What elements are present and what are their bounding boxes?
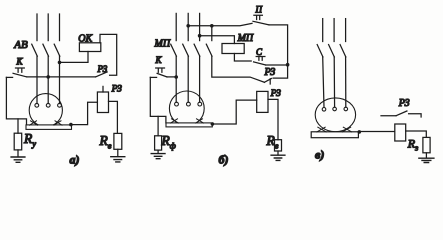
ground (below Rv fig a) <box>111 157 125 162</box>
wire phase L2 lower (fig b) <box>187 56 189 102</box>
wire phase L3 top (fig a) <box>59 14 61 41</box>
motor terminal 2 (fig b) <box>187 102 191 106</box>
contactor coil MP <box>222 44 244 54</box>
contactor MP aux pole blade <box>206 44 212 56</box>
svg-text:К: К <box>16 57 24 67</box>
resistor Rz <box>423 137 430 152</box>
motor terminal 2 (fig v) <box>333 107 337 111</box>
svg-text:РЗ: РЗ <box>264 67 276 78</box>
node at motor base right (fig v) <box>358 130 362 134</box>
svg-text:Rз: Rз <box>407 137 418 153</box>
svg-text:Rф: Rф <box>161 133 176 151</box>
wire contact C to right bus <box>266 64 288 66</box>
resistor Ru <box>14 133 22 150</box>
wire motor base to RZ coil (fig b) <box>212 100 256 124</box>
breaker AB pole 1 blade <box>32 44 38 56</box>
wire Rv to ground (fig b) <box>277 151 279 155</box>
wire phase L2 top (fig v) <box>333 19 335 42</box>
svg-text:П: П <box>255 5 263 15</box>
node on L3 to OK coil <box>58 61 62 65</box>
motor terminal 2 (fig a) <box>46 103 50 107</box>
breaker AB pole 3 blade <box>54 44 60 56</box>
wire phase L1 lower (fig a) <box>36 56 38 103</box>
svg-text:Rв: Rв <box>99 133 112 151</box>
node on L3 to MP coil <box>198 34 202 38</box>
wire phase L3 top (fig b) <box>199 13 201 40</box>
contact RZ (fig a) blade <box>96 72 108 77</box>
svg-text:РЗ: РЗ <box>398 98 410 109</box>
contactor MP pole 1 blade <box>171 44 177 56</box>
node on L2 at K wire <box>46 75 50 79</box>
relay coil OK <box>79 43 100 52</box>
motor base (fig b) <box>166 123 212 127</box>
motor mount braces right (fig a) <box>54 121 62 125</box>
wire aux pole lower segment <box>212 56 265 82</box>
contactor MP pole 3 blade <box>194 44 200 56</box>
wire RZ coil to resistor Rv (fig b) <box>268 99 278 139</box>
contactor MP pole 2 blade <box>183 44 189 56</box>
relay coil RZ (fig b) <box>257 91 268 112</box>
wire phase L1 lower (fig b) <box>175 56 177 102</box>
node on L2 to button P <box>186 24 190 28</box>
svg-text:К: К <box>155 55 163 65</box>
wire RZ coil to resistor Rz <box>406 131 427 137</box>
contact K arc-chute mark <box>16 68 25 72</box>
wire phase L3 lower (fig a) <box>59 56 61 103</box>
wire motor base to RZ coil (fig v) <box>359 131 395 133</box>
motor mount braces left (fig a) <box>30 121 38 125</box>
contact K arc-chute mark (fig b) <box>156 68 165 72</box>
relay coil RZ (fig a) <box>97 92 108 113</box>
wire branch to resistor Rf <box>157 116 159 135</box>
RZ contact fixed terminal tick (fig b) <box>269 79 271 84</box>
wire phase L2 top (fig a) <box>47 14 49 41</box>
node C wire on right bus <box>286 63 290 67</box>
switch pole 1 blade (fig v) <box>317 45 323 57</box>
wire MP coil bottom to contact C <box>234 54 251 62</box>
button P blade <box>253 21 269 25</box>
node aux tap on P wire <box>210 24 214 28</box>
wire contact K to contact RZ <box>27 76 96 78</box>
motor mount braces right (fig b) <box>196 119 204 123</box>
wire phase L2 top (fig b) <box>187 13 189 40</box>
wire left bracket (fig a) <box>6 77 26 125</box>
svg-text:МП: МП <box>237 33 254 44</box>
motor terminal 3 (fig a) <box>58 103 62 107</box>
wire phase L2 lower (fig a) <box>47 56 49 103</box>
svg-text:а): а) <box>70 153 80 167</box>
node at motor base right (fig b) <box>211 122 215 126</box>
ground (below Rv fig b) <box>271 155 285 160</box>
ground (below Ru) <box>11 157 25 162</box>
contact K blade (fig b) <box>157 73 167 77</box>
resistor Rv (fig a) <box>114 133 122 149</box>
motor mount braces left (fig b) <box>171 119 179 123</box>
svg-text:б): б) <box>219 153 229 167</box>
svg-text:в): в) <box>315 148 324 162</box>
wire phase L3 lower (fig b) <box>199 56 201 102</box>
button P actuator mark <box>254 15 263 19</box>
svg-text:РЗ: РЗ <box>97 64 108 74</box>
wire phase L1 top (fig b) <box>175 13 177 40</box>
motor mount braces left (fig v) <box>317 127 326 132</box>
wire RZ coil to resistor Rv (fig a) <box>109 101 118 133</box>
wire Ru to ground <box>17 150 19 157</box>
wire Rz to ground <box>425 153 427 158</box>
motor terminal 1 (fig a) <box>35 103 39 107</box>
contact C blade <box>254 62 266 65</box>
wire aux pole top segment <box>211 26 213 41</box>
breaker AB pole 2 blade <box>43 44 49 56</box>
relay coil RZ (fig v) <box>395 124 406 141</box>
svg-text:С: С <box>256 47 263 57</box>
wire phase L3 lower (fig v) <box>345 57 347 107</box>
wire Rv to ground (fig a) <box>117 149 119 156</box>
motor base (fig a) <box>26 125 72 129</box>
contact RZ (fig v) blade <box>396 111 407 116</box>
svg-text:РЗ: РЗ <box>270 89 281 99</box>
motor M (fig v) <box>315 98 355 132</box>
resistor Rv (fig b) <box>275 140 282 151</box>
motor M (fig a) <box>29 94 62 127</box>
wire phase L1 top (fig a) <box>36 14 38 41</box>
contact RZ (fig b) blade <box>264 79 271 83</box>
wire branch to resistor Ru <box>17 119 19 133</box>
wire L3 node to OK coil bottom <box>60 52 89 63</box>
ground (below Rf) <box>151 154 165 159</box>
contact K fixed stub (fig b) <box>150 76 156 78</box>
wire L3 node to MP coil top <box>200 36 235 44</box>
svg-text:МП: МП <box>154 38 171 49</box>
wire motor base to RZ coil <box>71 102 98 124</box>
wire phase L1 lower (fig v) <box>323 57 324 108</box>
contact C arc-chute mark <box>256 57 265 61</box>
contact K blade <box>13 73 27 77</box>
wire button P to right bus <box>269 25 288 78</box>
wire Rf to ground <box>157 150 159 153</box>
motor terminal 3 (fig v) <box>344 107 348 111</box>
svg-text:РЗ: РЗ <box>111 85 122 95</box>
motor M (fig b) <box>169 91 204 126</box>
motor terminal 1 (fig v) <box>322 108 326 112</box>
motor terminal 1 (fig b) <box>175 102 179 106</box>
wire L2 to button P <box>188 23 252 25</box>
switch pole 2 blade (fig v) <box>329 45 335 57</box>
svg-text:Rу: Rу <box>23 131 36 149</box>
svg-text:ОК: ОК <box>78 33 93 44</box>
wire left bracket (fig b) <box>150 77 166 123</box>
wire phase L1 top (fig v) <box>322 19 324 42</box>
motor mount braces right (fig v) <box>342 127 351 132</box>
wire phase L3 top (fig v) <box>345 19 347 42</box>
wire contact K to L1 (fig b) <box>167 76 176 78</box>
contact RZ (fig v) fixed stub right <box>409 114 422 117</box>
RZ coil top stub (fig a) <box>102 86 104 92</box>
svg-text:Rв: Rв <box>266 133 279 151</box>
contact RZ (fig v) fixed stub left <box>381 115 396 117</box>
resistor Rf <box>155 136 162 150</box>
svg-text:АВ: АВ <box>13 39 28 51</box>
ground (below Rz) <box>419 158 434 162</box>
node at motor base right <box>69 123 73 127</box>
switch pole 3 blade (fig v) <box>340 45 346 57</box>
wire OK coil top to RZ contact fixed terminal <box>100 34 117 75</box>
motor terminal 3 (fig b) <box>198 102 202 106</box>
wire phase L2 lower (fig v) <box>333 57 335 107</box>
contact K fixed stub <box>6 76 12 78</box>
motor base (fig v) <box>311 132 358 138</box>
node on L1 at K wire (fig b) <box>174 75 178 79</box>
